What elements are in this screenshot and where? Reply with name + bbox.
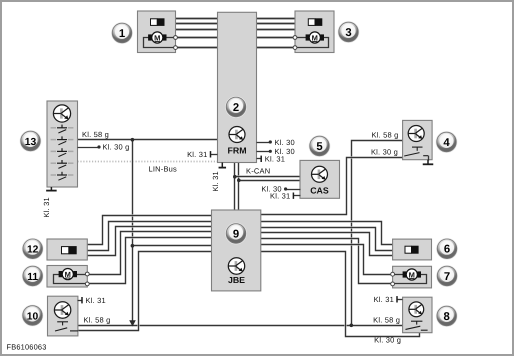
label ball 11 [22, 265, 44, 287]
wire unit 1 to FRM #2 [176, 23, 218, 25]
wire Kl. 58 g vertical drop with arrow to rail [131, 140, 133, 322]
terminal stub Kl. 30 at FRM right (1) [257, 142, 271, 144]
svg-text:Kl. 30 g: Kl. 30 g [371, 147, 398, 156]
wire K-CAN branch to CAS (lower) [239, 179, 301, 181]
svg-text:7: 7 [444, 271, 450, 283]
label ball 13 [20, 130, 42, 152]
pin connector unit 3 pin 5 [293, 46, 297, 50]
svg-text:Kl. 58 g: Kl. 58 g [371, 131, 398, 140]
label ball 2 [225, 96, 247, 118]
wire unit 1 to FRM #3 [176, 29, 218, 31]
wire FRM to unit 3 #5 [257, 47, 296, 49]
svg-text:FB6106063: FB6106063 [7, 343, 47, 352]
svg-text:6: 6 [444, 244, 450, 256]
motor unit 7 [393, 266, 432, 288]
label ball 9 [225, 223, 247, 245]
wire unit 7 motor loop [393, 275, 427, 284]
wire JBE left pin 1 to unit 12 pin 1 [88, 216, 212, 245]
label ball 3 [338, 21, 360, 43]
svg-text:3: 3 [345, 27, 351, 39]
wire JBE left pin 4 to unit 11 pin 1 [88, 232, 212, 275]
transistor symbol in JBE [228, 258, 244, 274]
label ball 1 [111, 22, 133, 44]
motor symbol M in unit 7 [403, 269, 421, 280]
wire K-CAN branch to CAS (upper) [235, 175, 301, 177]
switch unit 10 (transistor + switch) [48, 296, 78, 336]
svg-text:JBE: JBE [228, 275, 245, 285]
svg-text:Kl. 30 g: Kl. 30 g [374, 335, 401, 344]
label ball 7 [436, 265, 458, 287]
wire K-CAN high FRM to JBE [237, 163, 239, 211]
wire JBE right pin 5 to unit 7 pin 2 [261, 239, 393, 284]
wire JBE left pin 7 to unit 10 switch contact [78, 252, 212, 331]
wire JBE right pin 4 to unit 6 pin 3 [261, 233, 393, 256]
svg-text:Kl. 31: Kl. 31 [374, 295, 394, 304]
wire JBE left pin 5 to unit 11 pin 2 [88, 238, 212, 284]
switch unit 4 (transistor + switch) [403, 120, 433, 159]
wire K-CAN low FRM to JBE [233, 163, 235, 211]
pin connector unit 7 pin 2 [391, 282, 395, 286]
wire Kl. 58 g from unit 4 down to rail [352, 141, 404, 326]
wire unit 1 to FRM #1 [176, 18, 218, 20]
svg-text:11: 11 [27, 272, 38, 283]
svg-text:Kl. 31: Kl. 31 [265, 155, 285, 164]
svg-text:Kl. 58 g: Kl. 58 g [84, 316, 111, 325]
terminal stub Kl. 30 g at unit 13 [78, 147, 100, 149]
label ball 10 [22, 305, 44, 327]
transistor symbol in unit 4 [408, 126, 424, 142]
switch symbol in unit 6 [405, 246, 419, 254]
terminal stub Kl. 31 at FRM right [257, 158, 262, 160]
label ball 5 [309, 135, 331, 157]
switch symbol in unit 10 [55, 322, 78, 331]
terminal stub Kl. 31 at unit 8 [398, 299, 403, 301]
wire JBE right pin 2 to unit 6 pin 1 [261, 222, 393, 245]
transistor symbol in FRM [229, 127, 245, 143]
switch chain in unit 13 [51, 125, 74, 181]
wire FRM to unit 3 #3 [257, 29, 296, 31]
svg-text:Kl. 31: Kl. 31 [42, 197, 51, 217]
svg-text:FRM: FRM [227, 146, 246, 156]
motor symbol M in unit 11 [59, 269, 77, 280]
transistor symbol in unit 10 [54, 302, 70, 318]
switch symbol in unit 12 [62, 246, 77, 254]
pin connector unit 11 pin 1 [85, 272, 89, 276]
label ball 4 [436, 131, 458, 153]
svg-text:9: 9 [233, 228, 239, 240]
wire LIN-Bus (dotted) from K9 (13) to FRM [78, 161, 218, 163]
ground Kl. 31 stub under FRM [219, 163, 227, 168]
motor symbol M in unit 1 [148, 32, 166, 43]
svg-text:Kl. 58 g: Kl. 58 g [373, 316, 400, 325]
terminal stub Kl. 31 at unit 10 [78, 300, 83, 302]
svg-text:Kl. 58 g: Kl. 58 g [82, 130, 109, 139]
terminal stub Kl. 30 at FRM right (2) [257, 151, 271, 153]
motor unit 11 [47, 266, 87, 288]
wire JBE right pin 3 to unit 6 pin 2 [261, 228, 393, 251]
wire Kl. 58 g rail from switch unit 10 to unit 8 [78, 324, 403, 326]
switch symbol in unit 1 [151, 18, 165, 26]
switch symbol in unit 3 [308, 18, 322, 26]
terminal stub Kl. 31 at FRM left [211, 154, 218, 156]
junction K-CAN upper [233, 175, 237, 179]
ground Kl. 31 stub under unit 13 [46, 187, 57, 191]
switch unit 13 (light switch cluster) [47, 101, 78, 187]
wire JBE right pin 7 Kl. 30 g to unit 8 [261, 252, 420, 337]
svg-text:13: 13 [25, 137, 37, 148]
junction Kl. 58 g at unit 13 feed [131, 138, 135, 142]
label ball 8 [436, 305, 458, 327]
svg-text:4: 4 [443, 137, 450, 149]
wire FRM to unit 3 #2 [257, 23, 296, 25]
svg-text:Kl. 31: Kl. 31 [211, 171, 220, 191]
svg-text:10: 10 [27, 311, 39, 322]
ECU FRM (2) [218, 12, 257, 162]
switch/motor unit 1 (mirror drive) [138, 11, 176, 53]
wire unit 1 to FRM #4 [176, 37, 218, 39]
svg-text:Kl. 31: Kl. 31 [270, 191, 290, 200]
svg-text:5: 5 [316, 141, 322, 153]
wire unit 1 to FRM #5 [176, 47, 218, 49]
junction K-CAN lower [237, 179, 241, 183]
wire JBE left pin 2 to unit 12 pin 2 [88, 222, 212, 251]
ground Kl. 31 under unit 4 [423, 160, 434, 165]
label ball 12 [22, 238, 44, 260]
wire FRM to unit 3 #4 [257, 37, 296, 39]
label ball 6 [436, 238, 458, 260]
pin connector unit 11 pin 2 [85, 282, 89, 286]
wire JBE left pin 3 to unit 12 pin 3 [88, 227, 212, 256]
pin connector unit 3 pin 4 [293, 36, 297, 40]
switch symbol in unit 8 [406, 321, 428, 330]
switch/motor unit 3 (mirror drive) [295, 11, 334, 53]
ECU CAS (5) [300, 160, 340, 198]
wire JBE right pin 6 to unit 7 pin 1 [261, 245, 393, 275]
svg-text:CAS: CAS [310, 186, 329, 196]
wire unit 11 motor loop [54, 275, 88, 284]
svg-text:Kl. 30 g: Kl. 30 g [103, 143, 130, 152]
pin connector unit 1 pin 5 [174, 46, 178, 50]
junction Kl. 58 g at rail [350, 324, 354, 328]
svg-text:1: 1 [119, 28, 125, 40]
terminal stub Kl. 31 at CAS [294, 195, 301, 197]
svg-text:Kl. 31: Kl. 31 [86, 296, 106, 305]
pin connector unit 7 pin 1 [391, 272, 395, 276]
switch unit 12 [47, 239, 87, 260]
motor symbol M in unit 3 [306, 32, 324, 43]
pin connector unit 1 pin 4 [174, 36, 178, 40]
wire unit 3 motor loop [296, 38, 329, 48]
svg-text:Kl. 31: Kl. 31 [187, 150, 207, 159]
wire Kl. 58 g branch to JBE left pin 6 [133, 244, 212, 246]
wire Kl. 58 g from unit 13 to FRM [78, 138, 218, 140]
junction Kl. 58 g at JBE branch [131, 244, 135, 248]
switch symbol in unit 4 [404, 147, 428, 156]
svg-text:LIN-Bus: LIN-Bus [149, 164, 178, 173]
svg-text:K-CAN: K-CAN [246, 167, 270, 176]
terminal stub Kl. 30 at CAS [286, 189, 301, 191]
switch unit 8 (transistor + switch) [403, 297, 432, 333]
svg-text:12: 12 [27, 245, 39, 256]
ECU JBE (9) [212, 210, 261, 291]
wire FRM to unit 3 #1 [257, 18, 296, 20]
svg-text:Kl. 30: Kl. 30 [275, 138, 295, 147]
svg-text:8: 8 [444, 311, 450, 323]
transistor symbol in unit 13 [53, 105, 70, 122]
wire unit 4 switch to ground [428, 156, 430, 161]
transistor symbol in unit 8 [409, 302, 424, 317]
wire unit 1 motor loop [144, 38, 176, 48]
svg-text:2: 2 [233, 102, 239, 114]
wire JBE right pin 1 to unit 4 Kl. 30 g [261, 158, 404, 215]
switch unit 6 [393, 239, 432, 260]
transistor symbol in CAS [312, 166, 328, 182]
